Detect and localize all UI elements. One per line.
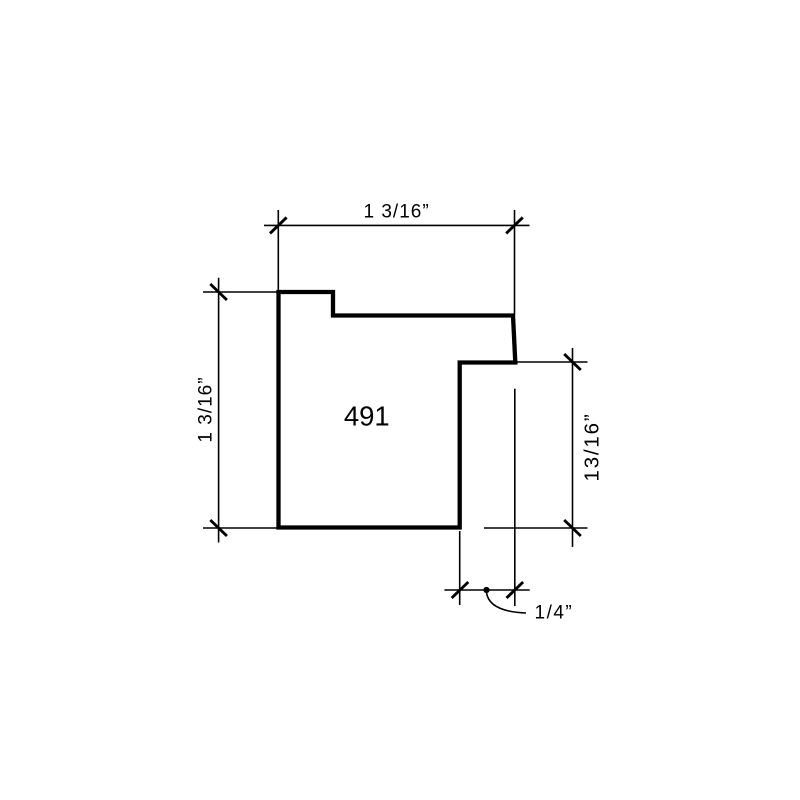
top dimension line [264, 224, 530, 226]
left dimension line [218, 278, 220, 543]
svg-text:1 3/16”: 1 3/16” [364, 201, 430, 222]
top dimension tick right [506, 217, 523, 233]
right dimension tick top [564, 354, 581, 370]
left dimension extension line top [203, 291, 277, 293]
left dimension extension line bottom [203, 527, 277, 529]
right dimension extension line top [517, 361, 588, 363]
right dimension extension line bottom [484, 527, 588, 529]
right dimension tick bottom [564, 520, 581, 536]
left dimension tick bottom [210, 520, 227, 536]
svg-text:491: 491 [344, 400, 390, 431]
svg-text:1 3/16”: 1 3/16” [196, 376, 217, 442]
bottom dimension node dot [483, 587, 489, 593]
bottom dimension tick left [452, 582, 469, 598]
top dimension extension line left [277, 210, 279, 291]
bottom dimension leader curve [487, 593, 527, 614]
bottom dimension extension line right [514, 389, 516, 606]
left dimension tick top [210, 284, 227, 300]
bottom dimension tick right [507, 582, 524, 598]
right dimension line [572, 348, 574, 547]
svg-text:1/4”: 1/4” [535, 603, 574, 624]
bottom dimension line [444, 589, 529, 591]
top dimension extension line right [514, 210, 516, 315]
svg-text:13/16”: 13/16” [581, 413, 604, 482]
top dimension tick left [270, 217, 287, 233]
bottom dimension extension line left [459, 531, 461, 605]
moulding profile outline 491 [279, 292, 516, 528]
